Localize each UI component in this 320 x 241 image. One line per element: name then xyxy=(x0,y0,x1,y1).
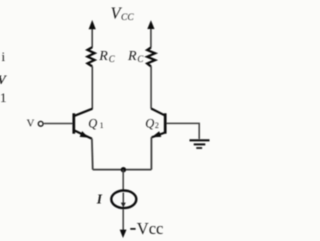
resistor RC (right) xyxy=(147,47,155,66)
svg-text:R: R xyxy=(98,49,108,64)
label -Vcc xyxy=(130,228,135,230)
wire Q1 emitter down xyxy=(91,139,94,170)
svg-text:i: i xyxy=(2,49,6,64)
label Q1 xyxy=(88,117,103,131)
wire source to -Vcc xyxy=(122,209,124,232)
svg-text:R: R xyxy=(127,49,137,64)
node VCC label xyxy=(111,3,135,23)
wire junction to source xyxy=(122,170,124,190)
label Q2 xyxy=(145,116,159,130)
current source arrow xyxy=(122,193,124,204)
wire base Q1 xyxy=(44,123,73,125)
svg-text:1: 1 xyxy=(100,121,104,130)
arrowhead -Vcc xyxy=(120,230,127,238)
svg-text:I: I xyxy=(96,191,103,206)
input terminal circle xyxy=(38,121,43,126)
collector lead xyxy=(151,109,165,116)
wire left supply arrow xyxy=(91,28,93,48)
svg-text:C: C xyxy=(109,54,116,64)
ground xyxy=(190,140,210,148)
wire left collector drop xyxy=(91,66,93,109)
svg-text:Vcc: Vcc xyxy=(137,219,164,238)
label RC (left) xyxy=(98,49,116,64)
base bar xyxy=(72,113,75,133)
wire right collector drop xyxy=(150,66,152,108)
svg-text:Q: Q xyxy=(145,116,154,130)
node emitter junction dot xyxy=(121,167,126,172)
base bar xyxy=(164,113,167,133)
wire Q2 emitter down xyxy=(150,137,152,169)
collector lead xyxy=(75,109,93,116)
emitter arrowhead xyxy=(80,131,89,138)
svg-text:C: C xyxy=(137,54,144,64)
label RC (right) xyxy=(127,49,144,64)
wire base Q2 to ground xyxy=(167,123,200,139)
current source I xyxy=(111,191,136,209)
resistor RC (left) xyxy=(88,47,95,66)
emitter lead xyxy=(75,131,92,139)
wire right supply arrow xyxy=(150,28,152,48)
svg-text:V: V xyxy=(27,117,35,129)
svg-text:1: 1 xyxy=(0,90,7,105)
svg-text:2: 2 xyxy=(155,121,159,130)
svg-text:Q: Q xyxy=(88,117,97,131)
emitter lead xyxy=(152,133,165,138)
emitter arrowhead xyxy=(152,131,162,137)
transistor Q1 xyxy=(74,109,93,139)
wire emitter join xyxy=(93,169,152,171)
transistor Q2 xyxy=(151,109,165,138)
svg-text:CC: CC xyxy=(121,13,134,23)
